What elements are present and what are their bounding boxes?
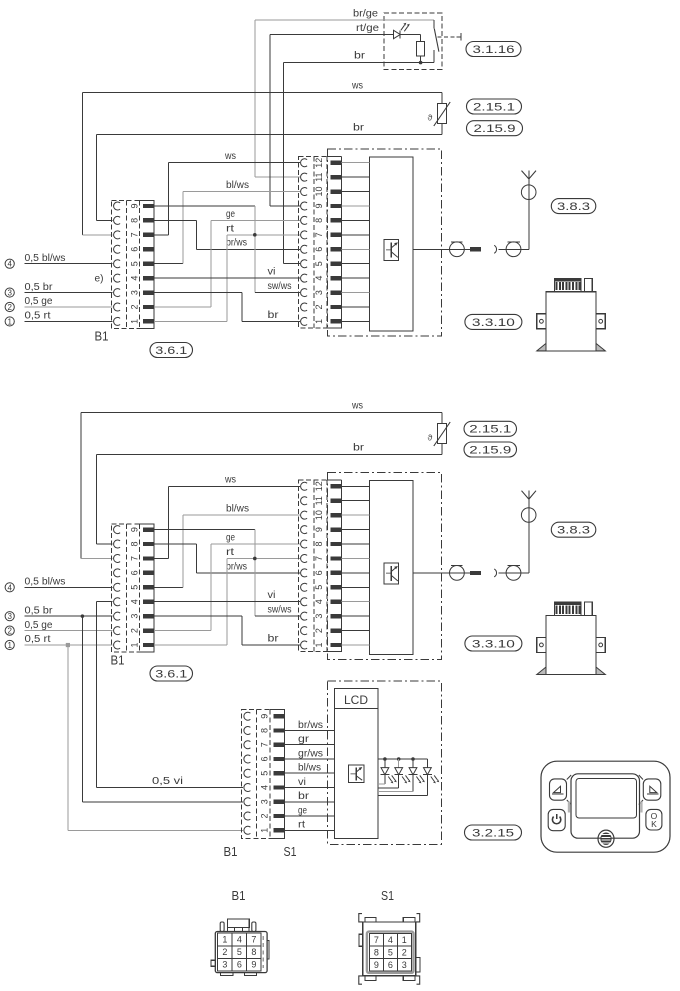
S1-bottom pin 8 socket contact: [244, 726, 251, 734]
reference pill 2.15.9: [467, 121, 523, 136]
svg-text:ge: ge: [226, 209, 235, 220]
svg-text:5: 5: [129, 585, 139, 590]
X-mid pin 2 socket contact: [301, 627, 308, 635]
reference pill 3.2.15: [465, 825, 522, 840]
svg-text:6: 6: [129, 570, 139, 575]
X-mid pin 10 socket contact: [301, 511, 308, 519]
reference pill 3.6.1: [150, 666, 193, 681]
svg-text:9: 9: [314, 527, 324, 532]
svg-text:B1: B1: [111, 653, 125, 668]
LED3 anode wire: [412, 759, 414, 768]
svg-text:7: 7: [129, 232, 139, 237]
pinout B1 right bump: [267, 940, 269, 959]
X-mid pin 5 male pin: [331, 585, 342, 589]
LED1 bus junction dot: [383, 757, 387, 761]
connector B1-top dashed housing: [112, 201, 154, 329]
svg-text:2: 2: [7, 303, 12, 312]
LED2 anode wire: [398, 759, 400, 768]
svg-text:S1: S1: [284, 844, 297, 859]
LED4 anode wire: [426, 759, 428, 768]
LED D1 triangle: [394, 30, 401, 38]
wire 0,5 vi into S1 pin 4: [97, 787, 243, 789]
svg-text:4: 4: [7, 583, 12, 592]
X-top pin 4 male pin: [331, 276, 342, 280]
X-top pin 5 socket contact: [301, 260, 308, 268]
svg-text:3: 3: [260, 799, 270, 804]
reference pill 2.15.1: [464, 421, 517, 436]
node circled 4 (top): [5, 259, 14, 268]
svg-text:9: 9: [260, 714, 270, 719]
B1-mid pin 7 socket contact: [114, 554, 121, 562]
antenna symbol (top): [522, 171, 529, 179]
coax connector female half (middle): [499, 572, 530, 574]
svg-text:3.1.16: 3.1.16: [473, 44, 515, 56]
svg-text:1: 1: [7, 641, 12, 650]
svg-text:1: 1: [260, 828, 270, 833]
wire rt B1p1 to central p7 (middle, gray): [154, 644, 227, 646]
B1-top pin 4 male pin: [143, 276, 154, 280]
svg-text:3: 3: [129, 290, 139, 295]
svg-text:4: 4: [314, 276, 324, 281]
switch fixed contact lower: [433, 50, 435, 62]
node circled 2 (top): [5, 302, 14, 311]
svg-text:7: 7: [260, 742, 270, 747]
LED3 emission arrows: [416, 777, 419, 782]
wire rt/ge horizontal to LED: [270, 34, 394, 36]
LCD header divider: [334, 708, 378, 710]
heater control unit (middle) dash-dot enclosure: [328, 472, 442, 659]
coax pin bar (middle): [470, 571, 481, 575]
svg-text:0,5 br: 0,5 br: [25, 605, 54, 616]
reference pill 3.1.16: [466, 42, 521, 57]
wire ge B1p2 to central p8 (gray): [154, 306, 211, 308]
coax socket arc (middle): [494, 569, 496, 577]
svg-text:br: br: [353, 443, 365, 454]
wire ws into B1 pin 7 (gray tail): [82, 234, 112, 236]
X-mid pin 10 male pin: [331, 513, 342, 517]
node circled 2 (middle): [5, 626, 14, 635]
svg-text:4: 4: [129, 276, 139, 281]
svg-text:5: 5: [388, 947, 393, 957]
svg-text:1: 1: [402, 935, 407, 945]
receiver module side plug (middle): [584, 602, 592, 615]
svg-text:8: 8: [260, 728, 270, 733]
X-top pin 6 socket contact: [301, 245, 308, 253]
svg-text:2.15.1: 2.15.1: [469, 424, 511, 436]
svg-text:6: 6: [260, 756, 270, 761]
pinout B1 bottom feet: [221, 973, 233, 976]
wire bl/ws B1p5 to central p10 (gray): [154, 263, 183, 265]
reference pill 3.8.3: [551, 522, 596, 537]
svg-text:3: 3: [314, 614, 324, 619]
ECU stub wires (middle): [342, 644, 370, 646]
wire ws temperature sensor (top run): [82, 91, 442, 93]
svg-text:B1: B1: [232, 888, 246, 903]
mechanical link dash-dot to terminal: [438, 36, 462, 38]
svg-text:2: 2: [314, 304, 324, 309]
LED4 triangle: [424, 768, 432, 775]
wire 0,5 ge (top external): [25, 306, 113, 308]
wire bl/ws B1p5 to central p10 (middle, gray): [154, 586, 183, 588]
reference pill 3.3.10: [465, 314, 522, 329]
coax socket arc (top): [494, 245, 496, 253]
svg-text:1: 1: [314, 643, 324, 648]
wire 0,5 rt (top external): [25, 320, 113, 322]
node circled 1 (middle): [5, 640, 14, 649]
wire ECU to antenna connector (top): [413, 248, 470, 250]
coax connector male half (top): [450, 242, 465, 257]
wire vi B1p4 to central p4 (middle): [154, 601, 300, 603]
svg-text:12: 12: [314, 158, 324, 168]
B1-mid pin 2 socket contact: [114, 627, 121, 635]
X-mid pin 4 socket contact: [301, 598, 308, 606]
S1-bottom pin 2 socket contact: [244, 812, 251, 820]
X-top pin 2 socket contact: [301, 303, 308, 311]
svg-text:br: br: [353, 123, 365, 134]
LED2 return wire: [398, 775, 400, 788]
X-mid pin 2 male pin: [331, 628, 342, 632]
relay/transistor symbol (middle): [384, 563, 399, 584]
B1-mid pin 5 male pin: [143, 585, 154, 589]
svg-text:11: 11: [314, 172, 324, 181]
pinout S1 housing: [363, 922, 416, 976]
wire vi drop to bottom S1 pin 4: [96, 602, 98, 788]
receiver module left tab (top): [537, 314, 546, 329]
X-top pin 12 male pin: [331, 160, 342, 164]
wire rt S1 pin 1 to LCD: [284, 829, 334, 831]
wire 0,5 rt (middle external): [25, 644, 113, 646]
X-mid pin 1 socket contact: [301, 641, 308, 649]
LCD control unit dash-dot enclosure: [328, 681, 442, 844]
svg-text:3.8.3: 3.8.3: [557, 525, 590, 537]
svg-text:6: 6: [129, 247, 139, 252]
svg-text:8: 8: [314, 542, 324, 547]
S1-bottom pin 5 socket contact: [244, 769, 251, 777]
B1-mid pin 9 socket contact: [114, 526, 121, 534]
panel separator strokes: [567, 775, 571, 780]
B1-mid pin 9 male pin: [143, 527, 154, 531]
wire ge B1p2 to central p8 (middle, gray): [154, 630, 211, 632]
X-top pin 7 socket contact: [301, 231, 308, 239]
receiver module side plug (top): [584, 279, 592, 292]
svg-text:0,5 rt: 0,5 rt: [25, 634, 51, 645]
wire ws drop to B1 pin 7: [81, 92, 83, 235]
wire gr S1 pin 7 to LCD: [284, 744, 334, 746]
B1-top pin 1 socket contact: [114, 317, 121, 325]
svg-text:B1: B1: [224, 844, 238, 859]
svg-text:7: 7: [314, 556, 324, 561]
wire 0,5 ge (middle external): [25, 630, 113, 632]
B1-mid pin 7 male pin: [143, 556, 154, 560]
pinout S1 inner frame: [367, 932, 414, 973]
svg-text:3.6.1: 3.6.1: [155, 345, 187, 357]
LED3 return wire: [412, 775, 414, 792]
S1-bottom pin 9 socket contact: [244, 712, 251, 720]
X-mid pin 6 socket contact: [301, 569, 308, 577]
svg-text:2: 2: [402, 947, 407, 957]
wire br into S1 pin 3: [82, 801, 243, 803]
svg-text:2: 2: [260, 814, 270, 819]
X-mid pin 6 male pin: [331, 571, 342, 575]
LED3 bus junction dot: [411, 757, 415, 761]
svg-text:0,5 br: 0,5 br: [25, 282, 54, 293]
pinout S1 left notch: [359, 934, 363, 946]
reference pill 2.15.1: [467, 99, 522, 114]
svg-text:4: 4: [388, 935, 393, 945]
junction dot br branch (middle): [81, 614, 85, 618]
svg-text:1: 1: [129, 319, 139, 324]
B1-top pin 5 socket contact: [114, 260, 121, 268]
wire ge S1 pin 2 to LCD: [284, 815, 334, 817]
svg-text:rt: rt: [226, 547, 234, 558]
svg-text:2: 2: [129, 304, 139, 309]
wire br drop to B1 pin 8 (middle): [96, 454, 98, 544]
X-mid pin 9 male pin: [331, 527, 342, 531]
connector S1-bottom pin-side housing: [270, 709, 285, 711]
control panel screen: [576, 779, 637, 819]
X-top pin 2 male pin: [331, 305, 342, 309]
LED D1 emission arrows: [401, 25, 405, 30]
S1-bottom pin 4 socket contact: [244, 784, 251, 792]
button bottom-left (power): [548, 809, 565, 830]
svg-text:ϑ: ϑ: [428, 433, 433, 443]
reference pill 3.6.1: [150, 343, 193, 358]
wire br into B1 pin 8: [97, 219, 113, 221]
S1-bottom pin 4 male pin: [273, 785, 284, 789]
svg-text:5: 5: [314, 585, 324, 590]
svg-text:LCD: LCD: [344, 693, 368, 707]
svg-text:3: 3: [402, 960, 407, 970]
receiver module 3.3.10 body (middle): [546, 615, 596, 674]
node circled 1 (top): [5, 317, 14, 326]
X-top pin 1 male pin: [331, 319, 342, 323]
wire br drop to bottom S1 pin 3: [81, 616, 83, 802]
svg-text:6: 6: [237, 960, 242, 970]
svg-text:7: 7: [314, 232, 324, 237]
svg-text:bl/ws: bl/ws: [298, 763, 321, 774]
wire resistor to junction: [420, 56, 422, 62]
svg-text:br/ws: br/ws: [226, 238, 247, 249]
svg-text:8: 8: [129, 542, 139, 547]
B1-mid pin 4 socket contact: [114, 598, 121, 606]
button bottom-right (OK): [646, 809, 662, 830]
svg-text:0,5 ge: 0,5 ge: [25, 296, 53, 307]
switch blade (open): [434, 29, 439, 52]
wire ws B1p7 to central p12 (middle): [154, 557, 169, 559]
svg-text:K: K: [651, 819, 657, 829]
B1-mid pin 1 socket contact: [114, 641, 121, 649]
svg-text:3.6.1: 3.6.1: [155, 668, 187, 680]
X-top pin 6 male pin: [331, 247, 342, 251]
B1-top pin 3 socket contact: [114, 289, 121, 297]
S1-bottom pin 7 male pin: [273, 743, 284, 747]
svg-text:6: 6: [314, 570, 324, 575]
B1-mid pin 2 male pin: [143, 628, 154, 632]
connector X-mid dashed housing: [299, 480, 342, 651]
pinout B1 latch posts: [220, 922, 224, 932]
svg-text:gr/ws: gr/ws: [298, 748, 323, 759]
svg-text:ge: ge: [226, 532, 235, 543]
temperature sensor resistor body (middle): [438, 424, 447, 444]
S1-bottom pin 8 male pin: [273, 728, 284, 732]
resistor R1 in flasher box: [417, 42, 425, 57]
svg-text:9: 9: [314, 203, 324, 208]
B1-mid pin 8 male pin: [143, 542, 154, 546]
svg-text:9: 9: [374, 960, 379, 970]
X-mid pin 7 male pin: [331, 556, 342, 560]
B1-mid pin 3 socket contact: [114, 612, 121, 620]
svg-text:vi: vi: [298, 777, 306, 788]
svg-text:6: 6: [388, 960, 393, 970]
X-mid pin 12 socket contact: [301, 482, 308, 490]
receiver module ribbed connector (top): [554, 279, 581, 292]
temperature sensor diagonal stroke: [434, 102, 450, 126]
reference pill 3.3.10: [465, 636, 522, 651]
pinout B1 left nub: [211, 960, 215, 966]
svg-text:sw/ws: sw/ws: [268, 281, 292, 292]
switch fixed contact upper: [433, 20, 435, 29]
svg-text:ws: ws: [351, 401, 363, 412]
wire LED to resistor: [400, 34, 420, 36]
svg-text:gr: gr: [298, 734, 310, 745]
S1-bottom pin 3 socket contact: [244, 798, 251, 806]
LED2 bus junction dot: [397, 757, 401, 761]
X-top pin 11 socket contact: [301, 173, 308, 181]
LED2 cathode bar: [394, 774, 403, 776]
wire to antenna (middle): [521, 572, 529, 574]
B1-mid pin 6 male pin: [143, 571, 154, 575]
svg-text:3: 3: [314, 290, 324, 295]
control panel body: [541, 761, 670, 852]
B1-mid pin 8 socket contact: [114, 540, 121, 548]
B1-top pin 8 socket contact: [114, 216, 121, 224]
svg-text:B1: B1: [95, 329, 109, 344]
LED3 cathode bar: [409, 774, 418, 776]
receiver module left tab (middle): [537, 637, 546, 652]
LCD ECU block: [334, 688, 378, 838]
terminal tick of mechanical link: [460, 33, 462, 40]
wire 0,5 br (middle external): [25, 615, 113, 617]
svg-text:2: 2: [129, 628, 139, 633]
svg-text:3: 3: [129, 614, 139, 619]
pinout S1 top tabs: [365, 917, 376, 922]
LED1 return wire: [384, 775, 386, 784]
svg-text:3.2.15: 3.2.15: [472, 827, 514, 839]
svg-text:7: 7: [129, 556, 139, 561]
connector S1-bottom dashed housing: [242, 710, 285, 839]
node circled 4 (middle): [5, 583, 14, 592]
LED1 emission arrows: [388, 777, 391, 782]
pinout B1 housing: [215, 932, 267, 973]
connector B1-mid pin-side housing: [140, 523, 154, 525]
coax connector male half (middle): [450, 565, 465, 580]
svg-text:vi: vi: [268, 267, 276, 278]
X-top pin 4 socket contact: [301, 274, 308, 282]
X-top pin 9 male pin: [331, 204, 342, 208]
svg-text:1: 1: [222, 934, 227, 944]
relay/transistor symbol (LCD): [349, 765, 364, 783]
svg-text:br/ge: br/ge: [353, 9, 378, 20]
svg-text:sw/ws: sw/ws: [268, 605, 292, 616]
wire vi S1 pin 4 to LCD: [284, 787, 334, 789]
wire 0,5 br (top external): [25, 292, 113, 294]
svg-text:8: 8: [129, 218, 139, 223]
svg-text:2: 2: [222, 947, 227, 957]
wire br drop to B1 pin 8: [96, 134, 98, 220]
B1-top pin 9 socket contact: [114, 202, 121, 210]
B1-top pin 9 male pin: [143, 204, 154, 208]
svg-text:vi: vi: [268, 590, 276, 601]
wire br sensor (middle run): [97, 453, 443, 455]
X-mid pin 11 socket contact: [301, 497, 308, 505]
svg-text:8: 8: [314, 218, 324, 223]
wire gr/ws S1 pin 6 to LCD: [284, 758, 334, 760]
wire br B1p3 to central p1: [154, 292, 242, 294]
wire ECU to antenna connector (middle): [413, 572, 470, 574]
pinout S1 corner hooks: [359, 914, 363, 922]
B1-top pin 6 socket contact: [114, 245, 121, 253]
svg-text:2: 2: [7, 627, 12, 636]
svg-text:2: 2: [314, 628, 324, 633]
B1-top pin 3 male pin: [143, 290, 154, 294]
svg-text:rt/ge: rt/ge: [356, 23, 379, 34]
wire br B1p3 to central p1 (middle): [154, 615, 242, 617]
svg-text:10: 10: [314, 510, 324, 520]
wire 0,5 bl/ws (middle external): [25, 586, 113, 588]
LED2 triangle: [395, 768, 403, 775]
wire br/ws B1p8 to central p6: [154, 219, 197, 221]
svg-text:br: br: [354, 51, 366, 62]
pinout B1 latch: [227, 919, 249, 927]
connector B1-top pin-side housing: [140, 200, 154, 202]
coax connector female half (top): [499, 248, 530, 250]
node circled 3 (middle): [5, 612, 14, 621]
X-top pin 3 male pin: [331, 290, 342, 294]
X-top pin 1 socket contact: [301, 317, 308, 325]
LED2 emission arrows: [402, 777, 405, 782]
coax pin bar (top): [470, 247, 481, 251]
svg-text:3: 3: [222, 960, 227, 970]
node circled 3 (top): [5, 288, 14, 297]
svg-text:0,5 bl/ws: 0,5 bl/ws: [25, 577, 66, 588]
X-top pin 8 socket contact: [301, 216, 308, 224]
svg-text:3: 3: [7, 289, 12, 298]
svg-text:ws: ws: [224, 475, 236, 486]
B1-top pin 8 male pin: [143, 218, 154, 222]
svg-text:br: br: [268, 310, 280, 321]
svg-text:br/ws: br/ws: [298, 720, 323, 731]
X-mid pin 7 socket contact: [301, 554, 308, 562]
X-top pin 5 male pin: [331, 262, 342, 266]
X-mid pin 3 male pin: [331, 614, 342, 618]
S1-bottom pin 5 male pin: [273, 771, 284, 775]
svg-text:3.3.10: 3.3.10: [472, 317, 515, 329]
B1-top pin 2 male pin: [143, 305, 154, 309]
svg-text:9: 9: [129, 527, 139, 532]
junction dot resistor/br: [419, 61, 423, 65]
wire br/ge horizontal into flasher box: [255, 19, 434, 21]
wire sensor bottom to br run: [441, 124, 443, 135]
wire br vertical to central pin 5: [283, 63, 285, 264]
receiver module right tab (top): [596, 314, 605, 329]
svg-text:7: 7: [251, 934, 256, 944]
wire to antenna (top): [521, 248, 529, 250]
connector X-top pin-side housing: [327, 155, 342, 157]
svg-text:7: 7: [374, 935, 379, 945]
svg-text:2.15.9: 2.15.9: [474, 123, 516, 135]
svg-text:10: 10: [314, 187, 324, 197]
S1-bottom pin 1 male pin: [273, 828, 284, 832]
